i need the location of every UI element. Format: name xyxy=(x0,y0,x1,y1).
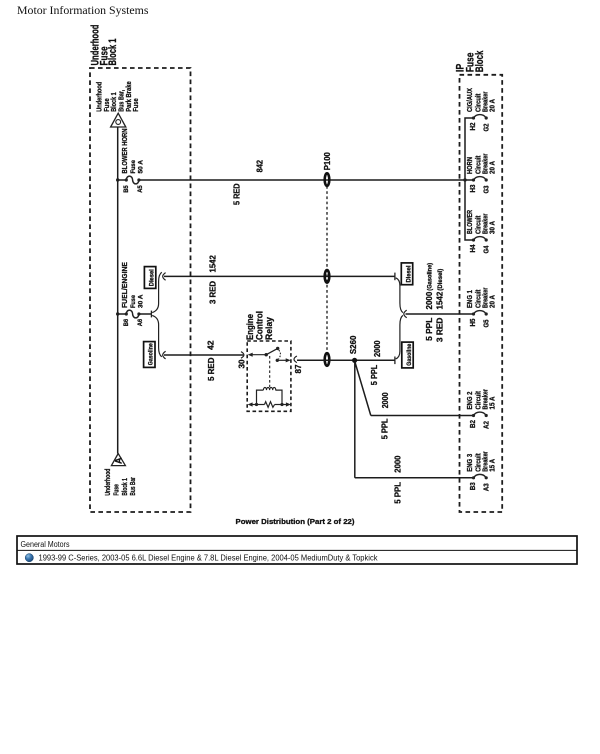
svg-text:ENG 2: ENG 2 xyxy=(467,391,474,409)
svg-text:30 A: 30 A xyxy=(489,221,496,234)
svg-text:A: A xyxy=(113,457,123,464)
svg-text:Diesel: Diesel xyxy=(405,265,412,282)
svg-text:2000: 2000 xyxy=(381,392,390,408)
svg-text:Power Distribution (Part 2 of: Power Distribution (Part 2 of 22) xyxy=(236,517,356,526)
svg-text:ENG 1: ENG 1 xyxy=(467,290,474,308)
svg-text:Motor Information Systems: Motor Information Systems xyxy=(17,3,149,17)
svg-text:A3: A3 xyxy=(481,483,490,491)
merge brace upper arm from Diesel xyxy=(396,278,403,313)
G-RELAY xyxy=(238,311,304,411)
node: bus to BLOWER HORN fuse xyxy=(116,178,119,181)
svg-text:42: 42 xyxy=(206,340,215,350)
wire 5 PPL 2000 to ENG 3 xyxy=(355,477,474,479)
svg-text:5 PPL: 5 PPL xyxy=(370,365,379,386)
relay pin 30 arrow and contact xyxy=(248,353,268,357)
svg-text:B6: B6 xyxy=(123,319,130,327)
svg-text:20 A: 20 A xyxy=(489,161,496,174)
svg-text:Fuse: Fuse xyxy=(130,295,137,308)
label box Diesel (right) xyxy=(401,263,412,285)
svg-text:A6: A6 xyxy=(137,319,144,327)
svg-text:30: 30 xyxy=(238,359,247,369)
svg-text:Fuse: Fuse xyxy=(104,98,111,112)
terminator tick end of 1542 wire xyxy=(394,273,396,281)
node: bus to FUEL/ENGINE fuse xyxy=(116,312,119,315)
relay K1 dashed box xyxy=(247,341,291,411)
svg-text:2000: 2000 xyxy=(425,291,434,309)
svg-text:Circuit: Circuit xyxy=(476,215,483,234)
label box Gasoline (left) xyxy=(144,342,155,368)
svg-text:G4: G4 xyxy=(481,246,490,254)
svg-text:Block 1: Block 1 xyxy=(122,478,129,496)
svg-text:H3: H3 xyxy=(468,185,477,193)
wire 5 RED 842 (horizontal) xyxy=(139,179,465,181)
svg-text:FUEL/ENGINE: FUEL/ENGINE xyxy=(120,262,129,308)
svg-text:B2: B2 xyxy=(468,420,477,428)
bullet ball icon xyxy=(25,554,33,562)
label Underhood Fuse Block 1 (outer title) xyxy=(90,24,119,65)
label Underhood Fuse Block 1 Bus Bar (bottom) xyxy=(105,469,137,496)
svg-text:(Diesel): (Diesel) xyxy=(438,269,444,291)
relay coil bottom wire with resistor xyxy=(248,402,291,408)
connector tick at pin 30 xyxy=(241,352,244,359)
circuit breaker ENG 2 15 A xyxy=(467,389,496,417)
svg-text:Engine: Engine xyxy=(245,314,255,340)
svg-text:A5: A5 xyxy=(137,185,144,193)
svg-text:1542: 1542 xyxy=(436,291,445,309)
svg-text:Fuse: Fuse xyxy=(114,484,121,496)
svg-text:842: 842 xyxy=(256,159,265,172)
svg-text:P100: P100 xyxy=(323,152,332,171)
fuse FUEL/ENGINE 30 A xyxy=(118,262,145,318)
svg-text:Circuit: Circuit xyxy=(476,453,483,472)
svg-text:1542: 1542 xyxy=(209,255,218,273)
svg-text:HORN: HORN xyxy=(467,157,474,174)
svg-text:2000: 2000 xyxy=(394,455,403,473)
terminator tick at fuse stub xyxy=(150,311,152,318)
svg-text:Park Brake: Park Brake xyxy=(126,81,133,112)
bus bar destination triangle A (bottom) xyxy=(111,454,125,466)
Underhood Fuse Block 1 dashed box xyxy=(90,68,191,512)
connector oval on 1542 wire xyxy=(325,270,330,283)
svg-text:15 A: 15 A xyxy=(489,397,496,410)
svg-text:H2: H2 xyxy=(468,123,477,131)
svg-text:G3: G3 xyxy=(481,186,490,194)
svg-text:BLOWER HORN: BLOWER HORN xyxy=(120,129,129,174)
svg-text:H5: H5 xyxy=(468,319,477,327)
wire vertical S260 down to ENG 3 xyxy=(354,362,356,478)
wire 5 PPL 2000 to ENG 2 xyxy=(371,415,474,417)
wire diagonal S260 to ENG 2 xyxy=(355,362,371,416)
circuit breaker ENG 1 20 A xyxy=(467,287,496,315)
svg-text:Relay: Relay xyxy=(264,317,274,340)
svg-text:50 A: 50 A xyxy=(137,160,144,174)
svg-text:5 RED: 5 RED xyxy=(233,183,242,205)
svg-text:Block 1: Block 1 xyxy=(107,39,119,66)
svg-text:(Gasoline): (Gasoline) xyxy=(428,263,434,291)
svg-text:Fuse: Fuse xyxy=(133,98,140,112)
svg-text:BLOWER: BLOWER xyxy=(467,210,474,234)
svg-text:Circuit: Circuit xyxy=(476,155,483,174)
IP internal bus vertical wire xyxy=(465,118,474,240)
relay pin 87 contact and arrow xyxy=(276,358,291,362)
terminator tick end of 2000 wire xyxy=(394,357,396,365)
wire merged 5 PPL 2000 / 3 RED 1542 to ENG 1 xyxy=(406,313,474,315)
wire: fuse output stub xyxy=(139,313,152,315)
svg-text:15 A: 15 A xyxy=(489,459,496,472)
svg-text:Circuit: Circuit xyxy=(476,289,483,308)
svg-text:Fuse: Fuse xyxy=(130,160,137,174)
G-LEFTBLOCK xyxy=(90,24,191,512)
svg-text:Underhood: Underhood xyxy=(105,469,112,496)
svg-text:5 PPL: 5 PPL xyxy=(394,482,403,504)
svg-text:Diesel: Diesel xyxy=(148,269,155,286)
svg-text:B5: B5 xyxy=(123,185,130,193)
label Underhood Fuse Block 1 Bus Bar, Park Brake Fuse xyxy=(97,81,141,112)
connector tick merged wire xyxy=(404,310,407,318)
svg-text:3 RED: 3 RED xyxy=(208,281,217,304)
circuit breaker ENG 3 15 A xyxy=(467,451,496,479)
connector tick at pin 87 xyxy=(294,356,297,363)
splitter brace lower arm to Gasoline branch xyxy=(152,315,162,356)
wire 3 RED 1542 Diesel branch (horizontal) xyxy=(164,275,395,277)
wire 5 RED 42 Gasoline branch (horizontal) xyxy=(164,354,243,356)
svg-text:Underhood: Underhood xyxy=(97,82,104,112)
svg-text:Gasoline: Gasoline xyxy=(148,343,155,365)
relay armature dashed link xyxy=(269,356,271,387)
main bus vertical wire xyxy=(117,127,119,454)
svg-text:30 A: 30 A xyxy=(137,294,144,308)
svg-text:5 PPL: 5 PPL xyxy=(380,418,389,439)
svg-text:G2: G2 xyxy=(481,124,490,132)
relay throw dotted arc xyxy=(279,350,281,359)
P100 harness dashed line xyxy=(326,186,328,352)
svg-text:1993-99 C-Series, 2003-05 6.6L: 1993-99 C-Series, 2003-05 6.6L Diesel En… xyxy=(39,554,378,563)
svg-text:Circuit: Circuit xyxy=(476,390,483,409)
svg-text:CIG/AUX: CIG/AUX xyxy=(467,88,474,112)
vehicle table outer box xyxy=(17,536,577,564)
relay coil (inductor) loop xyxy=(257,388,283,405)
label IP Fuse Block xyxy=(455,50,487,72)
connector P100 oval on 842 wire xyxy=(325,173,330,186)
svg-text:3 RED: 3 RED xyxy=(436,317,445,342)
merge brace lower arm from Gasoline xyxy=(396,315,403,359)
svg-text:ENG 3: ENG 3 xyxy=(467,454,474,472)
svg-text:Bus Bar: Bus Bar xyxy=(130,477,137,496)
fuse BLOWER HORN 50 A xyxy=(118,129,145,184)
svg-text:5 PPL: 5 PPL xyxy=(425,317,434,340)
connector tick Gasoline branch xyxy=(163,351,166,359)
svg-text:B3: B3 xyxy=(468,482,477,490)
svg-text:Bus Bar,: Bus Bar, xyxy=(119,90,126,112)
connector tick Diesel branch xyxy=(163,273,166,281)
svg-text:20 A: 20 A xyxy=(489,99,496,112)
circuit breaker CIG/AUX 20 A xyxy=(467,88,496,120)
svg-text:87: 87 xyxy=(294,364,303,374)
label Engine Control Relay xyxy=(245,311,274,340)
node: bus junction on HORN feed xyxy=(463,178,466,181)
circuit breaker HORN 20 A xyxy=(465,153,496,181)
label box Gasoline (right) xyxy=(402,342,413,368)
svg-text:H4: H4 xyxy=(468,245,477,253)
connector oval on 2000 wire xyxy=(325,353,330,366)
svg-text:Gasoline: Gasoline xyxy=(406,343,413,365)
circuit breaker BLOWER 30 A xyxy=(467,210,496,242)
vehicle table divider xyxy=(17,549,577,551)
wire 5 PPL 2000 relay output to splice xyxy=(297,359,395,361)
svg-text:S260: S260 xyxy=(349,335,358,354)
splice S260 xyxy=(352,358,357,363)
label box Diesel (left) xyxy=(144,267,155,289)
svg-text:Control: Control xyxy=(255,311,265,340)
G-FOOTER xyxy=(17,517,577,564)
svg-text:G5: G5 xyxy=(481,320,490,328)
G-IPBLOCK xyxy=(455,50,503,512)
svg-text:General Motors: General Motors xyxy=(21,540,70,549)
svg-text:Circuit: Circuit xyxy=(476,93,483,112)
svg-text:5 RED: 5 RED xyxy=(207,357,216,381)
IP Fuse Block dashed box xyxy=(460,75,503,512)
svg-text:A2: A2 xyxy=(481,421,490,429)
bus bar source triangle (top) xyxy=(111,113,126,127)
relay switch blade xyxy=(266,348,278,354)
svg-text:2000: 2000 xyxy=(373,340,382,357)
splitter brace upper arm to Diesel branch xyxy=(152,272,162,312)
svg-text:Block 1: Block 1 xyxy=(111,92,118,112)
svg-text:20 A: 20 A xyxy=(489,295,496,308)
svg-text:Block: Block xyxy=(474,50,486,72)
G-WIRES xyxy=(139,152,474,504)
